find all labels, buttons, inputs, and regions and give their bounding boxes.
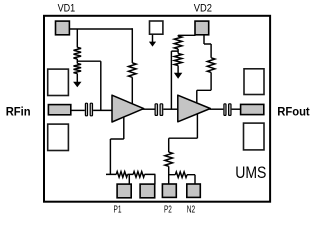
- wire amp1 out to C2: [143, 108, 155, 110]
- wire RFin pad to C1: [71, 109, 85, 111]
- pad P2 (bottom): [162, 184, 176, 197]
- pad VD1: [56, 21, 70, 35]
- op-amp A1 (first stage): [112, 95, 144, 122]
- svg-text:P1: P1: [114, 205, 122, 216]
- wire Rd1 to amp1 top: [131, 77, 133, 104]
- wire drop to pad P1b: [154, 174, 156, 184]
- wire gate bias amp1: [100, 61, 102, 110]
- pad P1a (bottom): [117, 184, 131, 198]
- wire Rs2 to pad P2: [168, 166, 170, 184]
- pad RFin: [48, 105, 70, 115]
- left bias rail: [106, 173, 155, 175]
- wire drop to pad N2: [194, 175, 196, 185]
- resistor Rg2b (VD2 divider bottom): [174, 54, 182, 66]
- wire C3 to RFout pad: [232, 108, 241, 110]
- wire VD2 pad to divider: [178, 34, 195, 37]
- capacitor C3 (output): [224, 104, 226, 116]
- capacitor C1 (input): [85, 103, 87, 116]
- wire C1 to amp1 input: [93, 109, 112, 111]
- pad RFout: [241, 104, 264, 114]
- capacitor C2 (interstage): [155, 104, 157, 116]
- wire down to resistor Rd1: [131, 28, 133, 63]
- white box right upper: [244, 69, 264, 95]
- ground arrow VD1 divider: [76, 74, 78, 83]
- ground arrow under via pad: [152, 35, 154, 42]
- white box right lower: [244, 123, 265, 150]
- wire Rd2 to amp2 top: [197, 72, 211, 103]
- svg-text:RFin: RFin: [6, 104, 31, 118]
- right bias rail: [169, 174, 195, 176]
- white box left upper: [48, 69, 69, 95]
- wire VD1 pad to drain branch: [70, 28, 133, 30]
- resistor Rs1a (left rail): [116, 172, 127, 178]
- wire amp2 out to C3: [210, 108, 224, 110]
- wire gate bias amp2: [170, 51, 172, 109]
- pad N2 (bottom): [187, 184, 201, 197]
- ground arrow VD2 divider: [177, 66, 179, 74]
- resistor Rg2a (VD2 divider top): [174, 36, 182, 49]
- white box left lower: [48, 124, 69, 150]
- pad VD2: [195, 21, 209, 35]
- svg-text:RFout: RFout: [277, 104, 310, 118]
- op-amp A2 (second stage): [178, 95, 211, 122]
- svg-text:VD2: VD2: [194, 3, 212, 15]
- wire divider node: [77, 59, 101, 64]
- wire C2 to amp2 input: [163, 108, 178, 110]
- svg-text:UMS: UMS: [235, 163, 266, 182]
- wire amp1 source down: [110, 117, 123, 175]
- resistor Rd2 (amp2 drain): [207, 58, 215, 73]
- pad P1b (bottom): [140, 184, 155, 198]
- via pad (white square, top middle): [150, 21, 163, 34]
- resistor Rg1a (VD1 divider top): [74, 47, 82, 59]
- wire drop to pad P1a: [128, 174, 130, 184]
- svg-text:N2: N2: [187, 205, 196, 216]
- wire amp2 source down: [169, 114, 198, 153]
- resistor Rs2b (right rail): [175, 172, 187, 178]
- resistor Rd1 (amp1 drain): [129, 63, 137, 77]
- wire VD2 pad to drain resistor: [204, 35, 211, 58]
- wire VD1 divider branch: [76, 29, 78, 47]
- svg-text:VD1: VD1: [58, 3, 76, 15]
- chip outline: [44, 16, 270, 202]
- svg-text:P2: P2: [164, 205, 172, 216]
- resistor Rg1b (VD1 divider bottom): [74, 64, 82, 74]
- resistor Rs1b (left rail): [133, 172, 144, 178]
- resistor Rs2 (amp2 source vertical): [165, 152, 173, 166]
- wire divider node VD2: [171, 49, 178, 54]
